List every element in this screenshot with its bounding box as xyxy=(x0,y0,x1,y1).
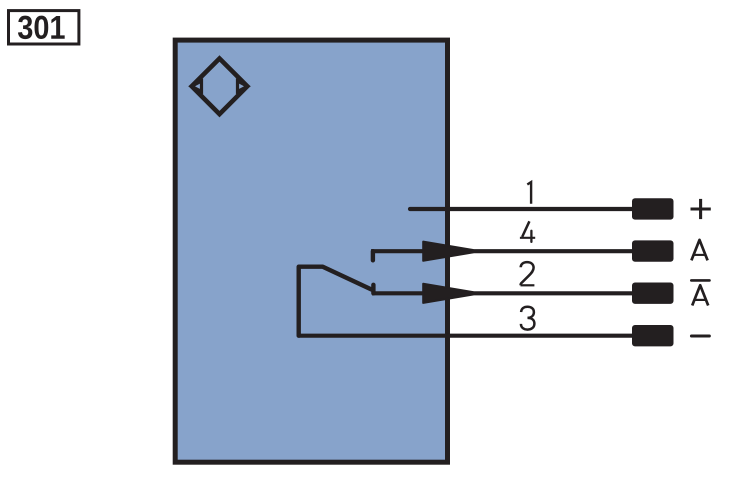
label A-bar xyxy=(691,280,709,305)
label plus xyxy=(691,199,711,219)
terminal block A xyxy=(632,240,674,261)
terminal block A-bar xyxy=(632,283,674,304)
wire 1 xyxy=(410,207,633,211)
switch contact tick pin 2 xyxy=(371,285,375,294)
logo left triangle xyxy=(192,81,202,92)
logo right triangle xyxy=(238,81,248,92)
wire 4 xyxy=(371,249,633,253)
pin number 1 xyxy=(527,182,531,204)
pin number 4 xyxy=(520,221,535,242)
wire 3 xyxy=(299,334,633,338)
sensor body xyxy=(175,40,447,462)
arrow on wire 2 xyxy=(423,284,473,303)
wire 2 xyxy=(372,291,633,295)
terminal block plus xyxy=(632,198,674,219)
sensor logo diamond xyxy=(192,59,248,115)
figure number box 301 xyxy=(9,11,79,44)
switch contact tick pin 4 xyxy=(371,251,375,260)
terminal block minus xyxy=(632,325,674,346)
arrow on wire 4 xyxy=(423,242,473,261)
label A xyxy=(691,240,707,261)
switch common / blade xyxy=(299,267,372,336)
pin number 2 xyxy=(521,262,535,285)
pin number 3 xyxy=(521,307,535,330)
label minus xyxy=(691,335,709,338)
